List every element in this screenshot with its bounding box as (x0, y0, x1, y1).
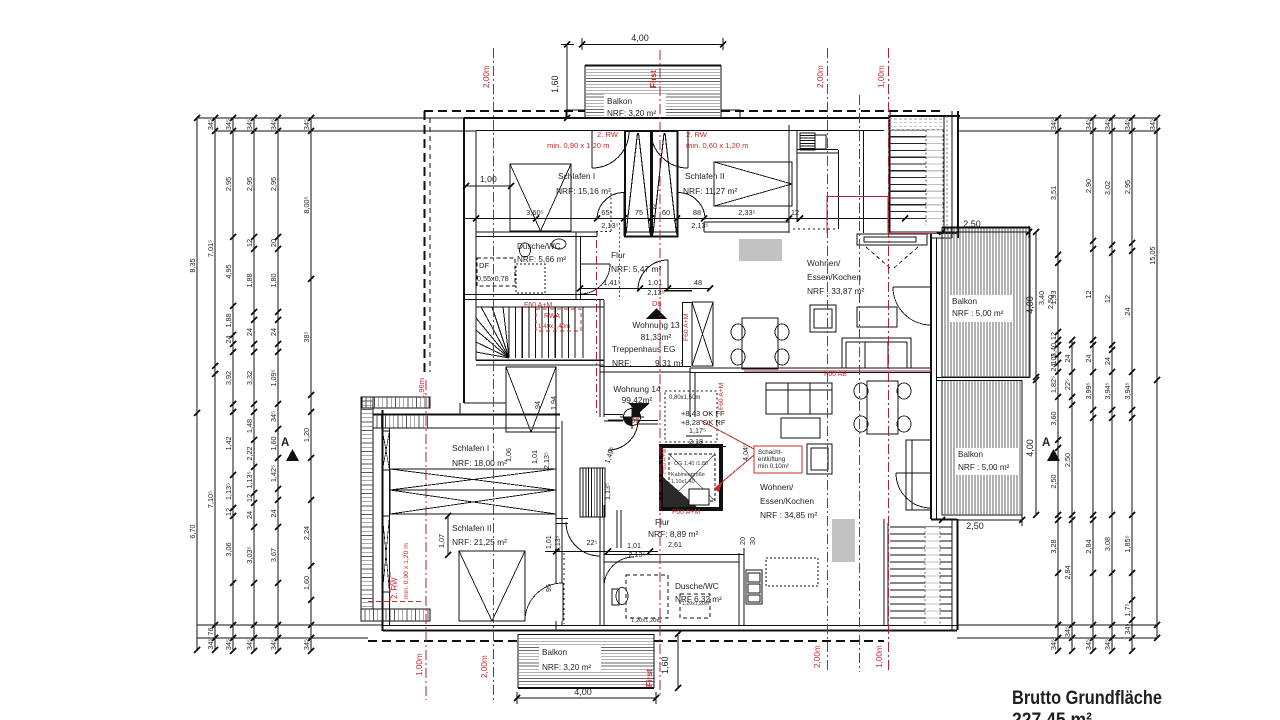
door arc Schlafen I from Flur (597, 193, 624, 237)
svg-text:1,07: 1,07 (437, 534, 446, 548)
balcony top label (604, 94, 666, 118)
svg-text:34⁵: 34⁵ (1123, 623, 1132, 634)
svg-text:1,60: 1,60 (269, 436, 278, 450)
svg-text:Balkon: Balkon (952, 297, 977, 306)
svg-text:34⁵: 34⁵ (224, 119, 233, 130)
red label 2,00m top-left (482, 65, 491, 88)
svg-text:7,10⁵: 7,10⁵ (206, 491, 215, 508)
svg-text:F60 A+M: F60 A+M (683, 313, 690, 341)
svg-text:First: First (649, 70, 658, 88)
dimension 2,50 right top (939, 219, 1032, 238)
section marker A right (1042, 437, 1060, 461)
svg-text:34⁵: 34⁵ (1063, 626, 1072, 637)
label Schlafen II upper (683, 171, 738, 196)
svg-text:1,20: 1,20 (302, 428, 311, 442)
svg-text:81,33m²: 81,33m² (641, 332, 672, 342)
shelf right of Dusche (746, 570, 762, 604)
svg-text:4,00: 4,00 (1025, 439, 1035, 457)
balcony door left arc (592, 131, 629, 168)
svg-text:3,67: 3,67 (269, 548, 278, 562)
svg-text:1,00m: 1,00m (875, 645, 884, 668)
rotated dims center (437, 396, 757, 592)
svg-text:15,05: 15,05 (1148, 246, 1157, 264)
svg-text:2,50: 2,50 (963, 219, 981, 229)
window left wall lower 2 (383, 516, 390, 592)
dining table lower (854, 381, 911, 434)
svg-text:1,01: 1,01 (546, 535, 553, 549)
balcony door right arc (651, 131, 688, 168)
exterior stair hatch top-right (889, 116, 947, 232)
label Dusche/WC lower (675, 582, 722, 604)
dimension 4,00 balcony right upper (1025, 229, 1039, 380)
svg-text:1,01: 1,01 (530, 450, 539, 464)
svg-text:1,42⁵: 1,42⁵ (269, 465, 278, 482)
svg-text:34⁵: 34⁵ (302, 119, 311, 130)
svg-text:Dusche/WC: Dusche/WC (675, 582, 719, 591)
svg-text:3,94⁵: 3,94⁵ (1123, 382, 1132, 399)
svg-text:F60 A+M: F60 A+M (672, 509, 700, 516)
door Schlafen II arc (525, 583, 563, 621)
svg-text:34⁵: 34⁵ (1103, 119, 1112, 130)
red D8 upper (652, 299, 661, 308)
dashed rail bottom stair (925, 527, 940, 624)
dimension 4,00 top (579, 33, 726, 50)
svg-text:1,00m: 1,00m (877, 65, 886, 88)
svg-text:12: 12 (224, 508, 233, 516)
svg-text:1,06: 1,06 (504, 448, 513, 462)
svg-text:8,00⁵: 8,00⁵ (302, 196, 311, 213)
svg-text:Balkon: Balkon (542, 648, 567, 657)
dotted line corridor lower (563, 553, 565, 624)
outer wall top (464, 118, 890, 131)
elevator shaft walls (661, 446, 721, 509)
red label First top (649, 70, 658, 88)
svg-text:1,60: 1,60 (550, 75, 560, 93)
label Wohnen upper (807, 258, 864, 296)
dotted line Flur (619, 223, 621, 300)
svg-text:2,13⁵: 2,13⁵ (542, 452, 551, 469)
svg-text:2,95: 2,95 (245, 177, 254, 191)
dimension row Flur (577, 278, 713, 297)
svg-text:1,88: 1,88 (224, 313, 233, 327)
kitchen sideboard upper (857, 234, 927, 268)
svg-text:entlüftung: entlüftung (758, 456, 786, 463)
svg-text:76: 76 (206, 627, 215, 635)
red label 1,00m bottom-right (875, 645, 884, 668)
svg-text:Schlafen I: Schlafen I (452, 443, 489, 453)
wc + sink upper (520, 239, 567, 257)
wall corridor piece + door to Flur lower (556, 519, 600, 557)
outer wall left upper (464, 118, 476, 403)
red dashed line x596 (596, 240, 598, 415)
svg-text:A: A (281, 437, 289, 449)
svg-text:22⁵: 22⁵ (1063, 379, 1072, 390)
svg-text:227,45 m²: 227,45 m² (1012, 710, 1092, 720)
svg-text:2,95: 2,95 (224, 177, 233, 191)
svg-text:1,48: 1,48 (245, 419, 254, 433)
svg-text:2,00m: 2,00m (816, 65, 825, 88)
svg-text:34⁵: 34⁵ (206, 119, 215, 130)
Schacht-entlueftung red box (700, 420, 802, 492)
wc lower (612, 588, 628, 606)
svg-text:60: 60 (662, 208, 670, 217)
svg-text:7,01⁵: 7,01⁵ (206, 240, 215, 257)
svg-text:Wohnen/: Wohnen/ (807, 258, 841, 268)
svg-text:75: 75 (635, 208, 643, 217)
svg-text:NRF: 5,47 m²: NRF: 5,47 m² (611, 264, 661, 274)
svg-text:3,06: 3,06 (224, 542, 233, 556)
wardrobe band between bedrooms (390, 469, 556, 514)
red line 2,00m right (827, 48, 829, 670)
balcony divider (936, 378, 1030, 381)
gray shaft lower (832, 519, 855, 562)
level marker circle (620, 405, 644, 429)
label Wohnung 13 (632, 320, 680, 342)
svg-text:2,61: 2,61 (668, 540, 682, 549)
svg-text:Wohnung 13: Wohnung 13 (632, 320, 680, 330)
svg-text:20: 20 (738, 537, 747, 545)
balcony right upper label (950, 295, 1012, 322)
red label 2.RW left (547, 130, 619, 150)
red D8 lower (630, 416, 639, 425)
svg-text:1,41⁵: 1,41⁵ (603, 278, 620, 287)
red line 2,00m left (493, 48, 495, 700)
svg-text:22⁵: 22⁵ (587, 538, 598, 547)
kitchen counter lower right (906, 440, 931, 510)
wall right of Schlafen II (789, 125, 797, 222)
svg-text:4,00: 4,00 (1025, 296, 1035, 314)
wardrobe Schlafen II upper (714, 162, 792, 206)
balcony bottom label (539, 645, 601, 672)
svg-text:Schacht-: Schacht- (758, 449, 782, 456)
svg-text:DF: DF (479, 261, 489, 270)
left dimension chains (188, 115, 476, 654)
balcony right upper (Balkon NRF 5,00) (942, 228, 1030, 378)
roof window dashed lower (626, 575, 668, 624)
window V Schlafen II bottom (459, 551, 525, 621)
svg-text:3,03⁵: 3,03⁵ (245, 546, 254, 563)
window left wall lower 1 (383, 431, 390, 470)
height labels +8,43 (681, 409, 726, 427)
door arc Schlafen II from Flur (678, 193, 705, 237)
svg-text:34⁵: 34⁵ (269, 639, 278, 650)
wall below Schlafen I/II (476, 222, 789, 237)
door Dusche lower arc (604, 557, 634, 587)
svg-text:RWA: RWA (544, 313, 560, 320)
balcony right lower (Balkon NRF 5,00) (942, 381, 1022, 516)
svg-text:1,00m: 1,00m (415, 653, 424, 676)
sofa upper (842, 338, 911, 368)
svg-text:3,60: 3,60 (1049, 411, 1058, 425)
stair bottom wall (476, 361, 604, 366)
svg-text:Schlafen I: Schlafen I (558, 171, 595, 181)
svg-text:1,96m: 1,96m (417, 378, 426, 399)
red label F60 A+M right of elevator (718, 382, 725, 410)
svg-text:NRF: 15,16 m²: NRF: 15,16 m² (556, 186, 611, 196)
svg-text:12: 12 (1084, 290, 1093, 298)
wardrobe Schlafen I upper (510, 164, 571, 231)
dimension 1,00 Schlafen I (463, 174, 514, 189)
red label 2,00m bottom-left (480, 655, 489, 678)
crimson F60 box stair top (827, 196, 888, 233)
svg-text:34⁵: 34⁵ (245, 119, 254, 130)
svg-text:1,88: 1,88 (245, 273, 254, 287)
label Flur lower (648, 517, 698, 549)
svg-text:NRF: 3,20 m²: NRF: 3,20 m² (542, 663, 591, 672)
crimson F60 line right (888, 233, 936, 235)
label Schlafen I lower (452, 443, 507, 468)
svg-text:24: 24 (1123, 307, 1132, 315)
svg-text:Wohnung 14: Wohnung 14 (613, 384, 661, 394)
svg-text:1,7⁵: 1,7⁵ (1123, 603, 1132, 616)
svg-text:24: 24 (245, 328, 254, 336)
door Flur to Wohnung13 arc (638, 260, 668, 290)
roof overhang dashed top-right (721, 110, 940, 112)
svg-text:3,60⁵: 3,60⁵ (526, 208, 543, 217)
svg-text:2,50: 2,50 (966, 521, 984, 531)
svg-text:2,84: 2,84 (1063, 565, 1072, 579)
svg-text:24: 24 (224, 335, 233, 343)
hatch strip corner top (362, 397, 430, 408)
svg-text:Balkon: Balkon (958, 450, 983, 459)
outer wall right lower (stair side) (931, 519, 958, 630)
svg-text:4,95: 4,95 (224, 264, 233, 278)
svg-text:NRF : 33,87 m²: NRF : 33,87 m² (807, 286, 864, 296)
svg-text:A: A (1042, 437, 1050, 449)
svg-text:min 0,10m²: min 0,10m² (758, 463, 789, 470)
right dimension chains (957, 115, 1160, 654)
svg-text:Brutto Grundfläche: Brutto Grundfläche (1012, 688, 1162, 709)
svg-text:NRF: 3,20 m²: NRF: 3,20 m² (607, 109, 656, 118)
svg-text:34⁵: 34⁵ (269, 119, 278, 130)
red label F60 A+M below elevator (672, 509, 700, 516)
svg-text:OG 1,40 /1,80: OG 1,40 /1,80 (674, 461, 708, 467)
svg-text:3,94⁵: 3,94⁵ (1103, 382, 1112, 399)
svg-text:2,13⁵: 2,13⁵ (691, 221, 708, 230)
svg-text:38⁵: 38⁵ (302, 331, 311, 342)
crimson line F60 AB wall (744, 370, 931, 372)
roof overhang dashed left side (425, 111, 431, 372)
roof overhang dashed top-left (424, 110, 585, 112)
red label 1,00m top-right (877, 65, 886, 88)
svg-text:12: 12 (1103, 295, 1112, 303)
svg-text:NRF : 5,00 m²: NRF : 5,00 m² (952, 309, 1004, 318)
chimney block (800, 133, 826, 150)
svg-text:4,00: 4,00 (631, 33, 649, 43)
dimension 1,60 bottom right of balcony (660, 631, 681, 691)
svg-text:2,00m: 2,00m (480, 655, 489, 678)
red label F60 AB (824, 371, 847, 378)
svg-text:Treppenhaus EG: Treppenhaus EG (612, 344, 675, 354)
svg-text:24: 24 (1049, 363, 1058, 371)
svg-text:2,22: 2,22 (245, 446, 254, 460)
svg-text:2,00m: 2,00m (482, 65, 491, 88)
outer wall bottom (383, 626, 957, 631)
svg-text:24: 24 (269, 509, 278, 517)
svg-text:F60 A+M: F60 A+M (661, 448, 668, 474)
svg-text:1,13⁵: 1,13⁵ (224, 483, 233, 500)
svg-text:1,10x1,40: 1,10x1,40 (671, 479, 695, 485)
svg-text:NRF: 11,27 m²: NRF: 11,27 m² (683, 186, 738, 196)
svg-text:1,13⁵: 1,13⁵ (603, 483, 612, 500)
shower dotted square upper (516, 264, 545, 293)
red label 2,00m mid-left (417, 378, 426, 399)
svg-text:2,00m: 2,00m (813, 645, 822, 668)
roof window dashed lower 2 (680, 594, 710, 618)
svg-text:34⁵: 34⁵ (1049, 119, 1058, 130)
wall landing to corridor (600, 367, 691, 373)
svg-text:4,00: 4,00 (574, 687, 592, 697)
wall right of corridor door (617, 510, 621, 548)
section marker A left (281, 437, 299, 461)
svg-text:12: 12 (791, 208, 799, 217)
svg-text:2. RW: 2. RW (597, 130, 619, 139)
svg-text:20: 20 (269, 239, 278, 247)
pillar between balcony doors with windows (625, 131, 678, 237)
stair treads straight run (476, 307, 604, 360)
wall bits at Wohnung14 entry (604, 415, 658, 425)
dotted niche line Schlafen I (596, 193, 611, 232)
svg-text:6,70: 6,70 (188, 524, 197, 538)
red line First center (659, 50, 661, 697)
svg-text:Essen/Kochen: Essen/Kochen (807, 272, 861, 282)
red line 1,00m bottom-left (425, 380, 427, 700)
svg-text:3,99⁵: 3,99⁵ (1084, 382, 1093, 399)
svg-text:Flur: Flur (611, 250, 626, 260)
svg-text:3,40: 3,40 (1037, 291, 1046, 305)
svg-text:F60 A+M: F60 A+M (524, 302, 552, 309)
svg-text:2,95: 2,95 (269, 177, 278, 191)
svg-text:48: 48 (694, 278, 702, 287)
svg-text:2,13⁵: 2,13⁵ (601, 221, 618, 230)
svg-text:65⁵: 65⁵ (601, 208, 612, 217)
red label First bottom (645, 669, 654, 687)
marker triangle down (628, 403, 650, 413)
svg-text:1,82⁵: 1,82⁵ (1049, 376, 1058, 393)
door right wall lower arc (896, 473, 931, 508)
svg-text:1,00: 1,00 (480, 174, 497, 184)
elevator tiny labels (671, 461, 708, 485)
label Wohnung 14 (613, 384, 661, 405)
svg-text:1,42: 1,42 (224, 436, 233, 450)
svg-text:NRF: 18,00 m²: NRF: 18,00 m² (452, 458, 507, 468)
red label 2.RW right (686, 130, 748, 150)
svg-text:3,08: 3,08 (1103, 537, 1112, 551)
red label F60 A+M stair (524, 302, 552, 309)
svg-text:94: 94 (533, 401, 542, 409)
roof overhang dashed bottom (368, 640, 884, 642)
balcony bottom (Balkon NRF 3,20) (518, 634, 654, 688)
roof window DF dashed (477, 258, 515, 286)
balcony right lower label (956, 448, 1018, 475)
top-right stair block walls (890, 111, 960, 238)
svg-text:2. RW: 2. RW (390, 577, 399, 599)
window V Schlafen I top (506, 367, 556, 432)
wall right of Dusche lower (739, 548, 744, 625)
gray shaft upper (739, 239, 782, 261)
red label F60 A+M left of elevator (683, 313, 690, 341)
svg-text:30: 30 (748, 537, 757, 545)
svg-text:Flur: Flur (655, 517, 670, 527)
svg-text:34⁵: 34⁵ (1148, 119, 1157, 130)
label Schlafen I upper (556, 171, 611, 196)
svg-text:3,02: 3,02 (1103, 181, 1112, 195)
svg-text:24: 24 (1084, 354, 1093, 362)
svg-text:3,28: 3,28 (1049, 539, 1058, 553)
svg-text:12: 12 (245, 239, 254, 247)
svg-text:1,80: 1,80 (269, 273, 278, 287)
svg-text:1,13⁵: 1,13⁵ (245, 471, 254, 488)
red label 1,00m bottom-left (415, 653, 424, 676)
wall top of Dusche lower (604, 555, 744, 563)
svg-text:4,04⁵: 4,04⁵ (741, 444, 750, 461)
svg-text:34⁵: 34⁵ (245, 639, 254, 650)
door right wall upper arc (893, 287, 931, 325)
svg-text:12: 12 (245, 494, 254, 502)
red line middle right (859, 95, 861, 672)
svg-text:3,92: 3,92 (224, 371, 233, 385)
stair treads bottom right (890, 527, 952, 618)
svg-text:2,24: 2,24 (302, 526, 311, 540)
armchair upper (810, 305, 836, 332)
Dusche/WC upper walls (464, 232, 604, 300)
svg-text:34⁵: 34⁵ (1103, 639, 1112, 650)
balcony top (Balkon NRF 3,20) (585, 65, 721, 118)
svg-text:95: 95 (544, 584, 553, 592)
svg-text:NRF : 34,85 m²: NRF : 34,85 m² (760, 510, 817, 520)
door arc Wohnung14 entry (608, 420, 638, 450)
svg-text:24: 24 (1103, 357, 1112, 365)
coffee table lower (781, 418, 820, 438)
svg-text:34⁵: 34⁵ (302, 639, 311, 650)
svg-text:Balkon: Balkon (607, 97, 632, 106)
svg-text:F60 A+M: F60 A+M (718, 382, 725, 410)
svg-text:min. 0,90 x 1,20 m: min. 0,90 x 1,20 m (547, 141, 609, 150)
svg-text:2,50: 2,50 (1046, 295, 1055, 309)
hatch strip band 2 (377, 415, 427, 428)
svg-text:Schlafen II: Schlafen II (685, 171, 725, 181)
svg-text:1,01: 1,01 (627, 541, 641, 550)
dimension 4,00 bottom (514, 687, 659, 704)
label Wohnen lower (760, 482, 817, 520)
svg-text:34⁵: 34⁵ (1049, 639, 1058, 650)
svg-text:Essen/Kochen: Essen/Kochen (760, 496, 814, 506)
dimension row below bedrooms (465, 204, 908, 230)
svg-text:+8,43 OK FF: +8,43 OK FF (681, 409, 725, 418)
armchair lower (807, 444, 832, 474)
dims bottom row flur lower (545, 535, 658, 559)
svg-text:NRF: 21,25 m²: NRF: 21,25 m² (452, 537, 507, 547)
wall niche Wohnen upper (797, 150, 839, 230)
wall piece right of Flur door (664, 291, 692, 367)
dotted niche lower Wohnen (766, 558, 818, 586)
dining table upper (731, 318, 789, 369)
label Treppenhaus EG (612, 344, 684, 368)
svg-text:34⁵: 34⁵ (224, 639, 233, 650)
outer wall right upper (931, 233, 958, 519)
outer wall top of lower-left block (373, 403, 560, 428)
window glass panel landing (692, 302, 713, 366)
svg-text:1,09⁵: 1,09⁵ (269, 369, 278, 386)
svg-text:24: 24 (269, 328, 278, 336)
svg-text:3,51: 3,51 (1049, 186, 1058, 200)
svg-text:NRF: 5,66 m²: NRF: 5,66 m² (517, 255, 566, 264)
hatch strip bottom-left corner (361, 609, 430, 621)
dotted ceiling line right of Schlafen II (793, 228, 838, 230)
label Dusche/WC upper (517, 242, 566, 264)
svg-text:2,18: 2,18 (689, 437, 703, 446)
svg-text:min. 0,90 x 1,20 m: min. 0,90 x 1,20 m (403, 543, 410, 599)
